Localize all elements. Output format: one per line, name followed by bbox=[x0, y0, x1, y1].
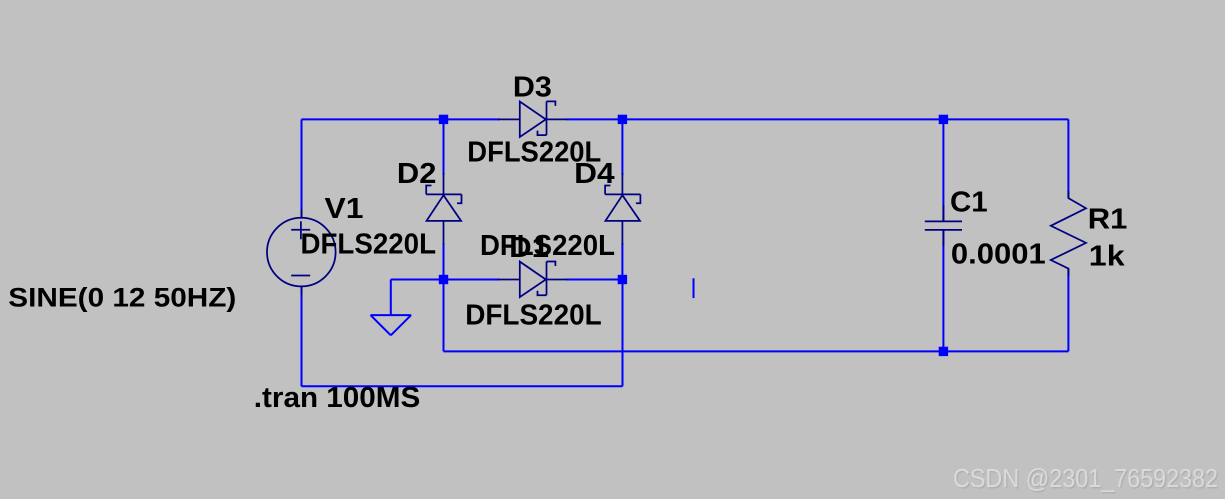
resistor R1 bbox=[1051, 191, 1086, 276]
svg-text:DFLS220L: DFLS220L bbox=[465, 300, 602, 332]
voltage source V1 bbox=[267, 209, 336, 295]
watermark CSDN bbox=[953, 463, 1219, 494]
wire riser up to middle rail node bbox=[622, 280, 624, 387]
diode D3 bbox=[498, 101, 568, 137]
diode D2 bbox=[426, 173, 461, 245]
wire R1 branch upper bbox=[1067, 119, 1069, 198]
diode D4 bbox=[605, 173, 640, 245]
wire D4 branch lower bbox=[621, 243, 623, 280]
wire top rail from V1 to D3 bbox=[302, 118, 500, 120]
svg-text:D2: D2 bbox=[397, 158, 437, 190]
junction node top-C1 bbox=[939, 115, 948, 124]
wire V1 bottom down bbox=[301, 286, 303, 386]
wire C1 branch lower bbox=[942, 230, 944, 352]
svg-text:D3: D3 bbox=[513, 72, 552, 104]
wire D2 branch upper bbox=[443, 119, 445, 175]
junction node top-D4 bbox=[618, 115, 627, 124]
junction node mid-D2 bbox=[439, 275, 448, 284]
wire ground stub drop bbox=[390, 280, 392, 316]
junction node mid-D4 bbox=[618, 275, 627, 284]
wire top rail from D3 to R1 bbox=[567, 118, 1069, 120]
wire left drop from top rail to V1 top bbox=[301, 119, 303, 218]
wire stub floating bbox=[693, 278, 695, 298]
wire D2 branch lower bbox=[443, 243, 445, 280]
svg-text:.tran 100MS: .tran 100MS bbox=[254, 382, 420, 414]
junction node bottom-C1 bbox=[939, 347, 948, 356]
wire middle rail ground to D1 bbox=[391, 279, 500, 281]
svg-text:DFLS220L: DFLS220L bbox=[301, 229, 437, 261]
svg-text:R1: R1 bbox=[1088, 204, 1128, 236]
svg-text:SINE(0 12 50HZ): SINE(0 12 50HZ) bbox=[8, 283, 236, 313]
svg-text:C1: C1 bbox=[950, 187, 988, 219]
svg-text:0.0001: 0.0001 bbox=[951, 239, 1046, 271]
wire R1 branch lower bbox=[1067, 269, 1069, 352]
svg-text:D4: D4 bbox=[574, 158, 615, 190]
wire below middle junction bbox=[443, 280, 445, 352]
svg-text:V1: V1 bbox=[325, 193, 364, 225]
diode D1 bbox=[498, 262, 568, 298]
wire D4 branch upper bbox=[621, 119, 623, 175]
junction node top-D2 bbox=[439, 115, 448, 124]
svg-text:CSDN @2301_76592382: CSDN @2301_76592382 bbox=[953, 463, 1218, 493]
wire C1 branch upper bbox=[942, 119, 944, 221]
svg-text:1k: 1k bbox=[1089, 241, 1126, 273]
svg-text:D1: D1 bbox=[509, 232, 549, 264]
ground bbox=[371, 315, 412, 335]
wire bottom rail bbox=[444, 350, 1069, 352]
capacitor C1 bbox=[925, 205, 962, 246]
wire bottom-left rail from V1 to riser bbox=[302, 385, 623, 387]
wire middle rail D1 to riser node bbox=[567, 279, 623, 281]
